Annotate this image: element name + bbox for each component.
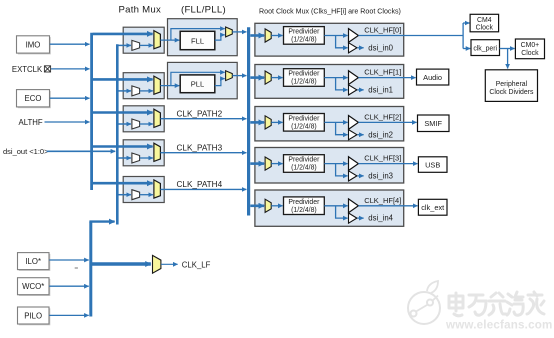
wire root bus to HF mux 4 [250,205,264,208]
ROOT ROWS [250,23,403,226]
CLK_LF mux [92,255,211,273]
path mux row 4 box [123,140,164,166]
svg-text:www.elecfans.com: www.elecfans.com [445,319,553,332]
svg-text:CLK_HF[3]: CLK_HF[3] [364,154,401,163]
wire PLL bypass [171,72,225,85]
svg-text:CM4: CM4 [477,17,492,24]
wire CLK_LF out [161,263,178,265]
path mux row 3 box [123,106,164,132]
svg-text:Predivider: Predivider [288,157,320,164]
svg-text:Predivider: Predivider [288,29,320,36]
wire bus2 to dsi mux 3 input [118,123,130,125]
source box IMO [17,36,51,55]
wire predivider 2 to dsi buffer [336,122,348,134]
predivider box 2 [284,114,325,132]
path mux row 2 box [123,73,164,99]
watermark logo circle [408,281,440,324]
svg-text:CLK_HF[4]: CLK_HF[4] [364,196,401,205]
wire root bus to HF mux 1 [250,76,264,79]
box clk_ext [418,199,447,215]
buffer CLK_HF4 [349,199,359,213]
svg-text:CLK_HF[0]: CLK_HF[0] [364,26,401,35]
box USB [418,157,447,173]
svg-text:FLL: FLL [191,36,204,45]
buffer dsi_in3 [349,171,357,181]
wire CLK_HF3 to USB [358,163,417,165]
wire FLL mux out to root bus [232,31,246,33]
wire CLK_HF0 to branch [358,23,463,49]
mux HF1 (yellow) [265,71,271,84]
root clock mux row 3 box [255,148,404,184]
source box PILO [18,307,51,325]
svg-text:EXTCLK: EXTCLK [12,65,43,74]
wire HF mux 1 to predivider [271,77,282,79]
wire CLK_HF1 to Audio [358,77,415,79]
wire predivider 0 to buffer [324,35,347,37]
right side network [358,14,544,215]
predivider box 0 [284,27,325,45]
mux path 4 (yellow) [154,143,161,161]
svg-text:USB: USB [425,160,440,169]
wire FLL bypass [171,29,225,40]
mux dsi select 5 (white) [132,190,140,200]
lower LF bus [89,222,92,317]
mux dsi select 2 (white) [132,86,140,96]
buffer dsi_in0 [349,43,357,53]
wire IMO to bus1 [50,43,90,45]
mux CLK_LF [153,255,161,273]
svg-text:ECO: ECO [25,94,42,103]
root clock mux row 2 box [255,107,404,141]
buffer CLK_HF0 [349,29,359,43]
source box WCO [18,278,51,296]
svg-text:clk_ext: clk_ext [421,203,444,212]
FLL block [160,19,246,56]
box CM4 Clock [470,14,499,32]
wire clk_peri to CM0 [500,48,515,50]
EXTCLK crossed-box symbol [44,66,50,72]
wire dsi_in1 arrow [357,89,363,91]
wire dsi_in3 arrow [357,175,363,177]
box Audio [417,69,449,85]
svg-text:CM0+: CM0+ [521,42,540,49]
FLL container box [168,19,238,56]
svg-text:dsi_in2: dsi_in2 [368,130,393,139]
wire predivider 1 to dsi buffer [336,78,348,90]
wire predivider 4 to dsi buffer [336,206,348,218]
FLL box [180,31,215,49]
svg-text:ALTHF: ALTHF [19,118,43,127]
wire predivider 1 to buffer [324,77,347,79]
wire root bus to HF mux 0 [250,34,264,37]
wire CLK_PATH3 to root bus [160,152,246,154]
box clk_peri [471,40,500,56]
svg-text:SMIF: SMIF [424,119,442,128]
wire branch to clk_peri [463,48,470,50]
wire dsi_in0 arrow [357,47,363,49]
path mux row 5 box [123,177,164,203]
wire dsi mux 4 to path mux 4 [140,157,153,159]
svg-text:Clock: Clock [521,50,539,57]
mux path 5 (yellow) [154,180,161,198]
bus2 dsi bus [116,44,119,224]
path mux row 1 box [123,27,164,53]
svg-text:CLK_PATH4: CLK_PATH4 [177,180,223,189]
svg-text:Predivider: Predivider [288,71,320,78]
wire root bus to HF mux 3 [250,162,264,165]
wire bus2 to dsi mux 2 input [118,90,130,92]
predivider box 1 [284,69,325,87]
predivider box 3 [284,155,325,173]
wire PILO to LF bus [49,314,88,316]
svg-text:CLK_LF: CLK_LF [182,260,211,269]
mux PLL bypass (yellow) [226,71,233,81]
watermark chinese characters [449,292,544,316]
svg-text:dsi_in1: dsi_in1 [368,86,393,95]
wire HF mux 3 to predivider [271,163,282,165]
wire predivider 0 to dsi buffer [336,36,348,48]
mux HF2 (yellow) [265,116,271,129]
wire path mux 1 out to FLL [160,39,179,41]
wire path mux 2 out to PLL [160,85,179,87]
wire dsi_in2 arrow [357,134,363,136]
bus1 main source bus [90,33,93,190]
wire bus2 to dsi mux 4 input [118,157,130,159]
wire bus1 to path mux 1 clock input [93,33,153,36]
wire PLL mux out to root bus [232,75,246,77]
wire dsi mux 1 to path mux 1 [140,44,153,46]
wire PLL out to mux [215,79,225,86]
wire predivider 3 to dsi buffer [336,164,348,176]
wire LF bus to CLK_LF mux [92,262,151,265]
svg-text:Predivider: Predivider [288,115,320,122]
wire dsi mux 5 to path mux 5 [140,194,153,196]
watermark [408,281,553,332]
buffer dsi_in4 [349,213,357,223]
wire dsi_in4 arrow [357,217,363,219]
svg-text:Root Clock Mux (Clks_HF[i] are: Root Clock Mux (Clks_HF[i] are Root Cloc… [259,8,401,16]
svg-text:WCO*: WCO* [22,282,44,291]
mux dsi select 1 (white) [132,40,140,50]
svg-text:CLK_HF[2]: CLK_HF[2] [364,112,401,121]
svg-text:CLK_PATH2: CLK_PATH2 [177,110,223,119]
svg-text:PILO: PILO [24,311,42,320]
wire dsi mux 3 to path mux 3 [140,123,153,125]
svg-text:(1/2/4/8): (1/2/4/8) [291,123,317,130]
svg-text:(1/2/4/8): (1/2/4/8) [291,207,317,214]
wire ECO to bus1 [50,97,90,99]
wire HF mux 2 to predivider [271,121,282,123]
wire bus2 to dsi mux 1 input [118,44,130,46]
mux FLL bypass (yellow) [226,27,233,37]
wire predivider 4 to buffer [324,205,347,207]
svg-text:dsi_in0: dsi_in0 [368,43,393,52]
wire bus1 to path mux 2 clock input [93,78,153,81]
predivider box 4 [284,197,325,215]
svg-text:CLK_PATH3: CLK_PATH3 [177,144,223,153]
wire CLK_PATH4 to root bus [160,188,246,190]
wire junction down to Peripheral Clock Dividers [507,49,509,69]
svg-text:(1/2/4/8): (1/2/4/8) [291,165,317,172]
buffer CLK_HF2 [349,116,359,130]
stray dash artifact [75,267,78,269]
mux path 2 (yellow) [154,76,161,94]
wire dsi_out to bus2 [47,150,116,152]
PLL block [160,62,246,98]
wire predivider 2 to buffer [324,121,347,123]
wire WCO to LF bus [49,285,88,287]
wire LF bus to bus2 [89,220,114,222]
box Peripheral Clock Dividers [485,70,537,102]
svg-text:Clock: Clock [476,24,494,31]
mux HF3 (yellow) [265,157,271,170]
svg-text:CLK_HF[1]: CLK_HF[1] [364,68,401,77]
wire bus1 to path mux 3 clock input [93,111,153,114]
wire EXTCLK to bus1 [51,68,90,70]
source box ILO [18,253,51,271]
wire predivider 3 to buffer [324,163,347,165]
svg-text:Predivider: Predivider [288,199,320,206]
buffer CLK_HF3 [349,157,359,171]
wire CLK_HF4 to clk_ext [358,205,417,207]
mux HF0 (yellow) [265,29,271,42]
wire FLL out to mux [215,35,225,40]
root clock mux row 1 box [255,65,404,99]
wire bus1 to path mux 5 clock input [93,182,153,185]
buffer dsi_in1 [349,85,357,95]
svg-text:Audio: Audio [423,73,442,82]
wire ALTHF to bus1 [45,121,90,123]
mux HF4 (yellow) [265,199,271,212]
svg-text:dsi_out <1:0>: dsi_out <1:0> [3,147,49,156]
wire CLK_HF2 to SMIF [358,121,416,123]
svg-text:dsi_in4: dsi_in4 [368,214,393,223]
svg-text:clk_peri: clk_peri [473,45,497,52]
wire HF mux 0 to predivider [271,35,282,37]
svg-text:PLL: PLL [191,80,205,89]
root clock bus [247,27,250,215]
svg-text:dsi_in3: dsi_in3 [368,172,393,181]
svg-text:(1/2/4/8): (1/2/4/8) [291,37,317,44]
buffer dsi_in2 [349,130,357,140]
wire root bus to HF mux 2 [250,121,264,124]
box SMIF [418,115,450,132]
wire bus2 to dsi mux 5 input [118,194,130,196]
wire ILO to LF bus [49,259,88,261]
svg-text:Clock Dividers: Clock Dividers [489,89,534,96]
mux dsi select 4 (white) [132,153,140,163]
wire CLK_PATH2 to root bus [160,118,246,120]
mux path 1 (yellow) [154,31,161,49]
source box ECO [17,90,51,109]
wire dsi mux 2 to path mux 2 [140,90,153,92]
PLL container box [168,62,238,98]
svg-text:Peripheral: Peripheral [496,81,528,88]
mux dsi select 3 (white) [132,119,140,129]
PATH MUX ROWS [93,27,247,202]
box CM0+ Clock [515,39,544,59]
wire HF mux 4 to predivider [271,205,282,207]
svg-text:ILO*: ILO* [25,257,41,266]
root clock mux row 0 box [255,23,404,56]
svg-text:(1/2/4/8): (1/2/4/8) [291,79,317,86]
svg-text:(FLL/PLL): (FLL/PLL) [181,4,226,15]
PLL box [180,75,215,93]
wire branch to CM4 Clock [463,22,469,24]
mux path 3 (yellow) [154,109,161,127]
root clock mux row 4 box [255,190,404,226]
svg-text:IMO: IMO [26,40,41,49]
buffer CLK_HF1 [349,71,359,85]
svg-text:Path Mux: Path Mux [119,4,162,15]
wire bus1 to path mux 4 clock input [93,145,153,148]
